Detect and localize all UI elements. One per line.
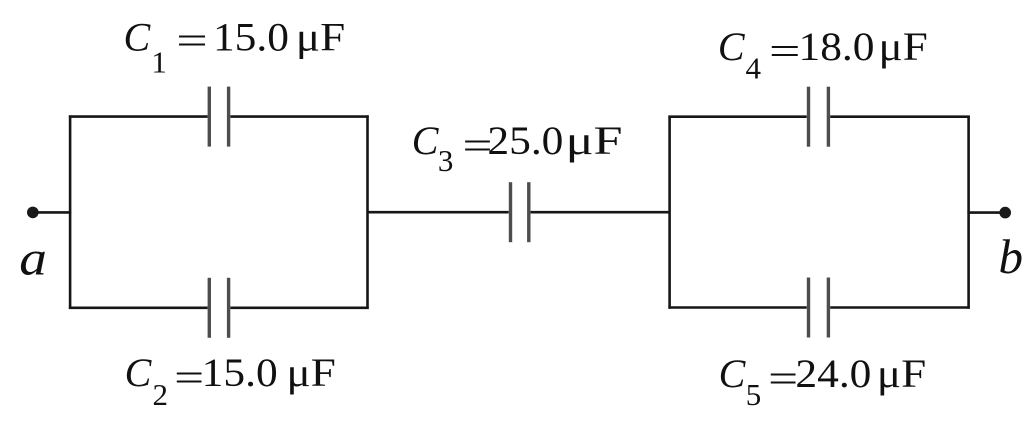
- capacitor C3 right plate: [527, 182, 530, 242]
- capacitor C1 right plate: [227, 87, 230, 147]
- wire: left loop bottom edge, right of C2: [230, 306, 368, 309]
- wire: left loop top edge, left of C1: [69, 115, 208, 118]
- wire: right loop bottom edge, right of C5: [830, 306, 970, 309]
- wire: right loop bottom edge, left of C5: [668, 306, 806, 309]
- capacitor C5 left plate: [807, 278, 810, 338]
- wire: right loop left vertical side: [668, 116, 671, 309]
- capacitor C2 right plate: [227, 278, 230, 338]
- capacitor C1 left plate: [208, 87, 211, 147]
- capacitor C5 right plate: [827, 278, 830, 338]
- wire: left loop bottom edge, left of C2: [69, 306, 208, 309]
- svg-text:C4=18.0μF: C4=18.0μF: [718, 24, 928, 86]
- capacitor C3 left plate: [509, 182, 512, 242]
- wire: right loop top edge, right of C4: [830, 115, 970, 118]
- svg-text:a: a: [19, 231, 47, 286]
- wire: middle link, right of C3: [531, 211, 670, 214]
- svg-text:C3=25.0μF: C3=25.0μF: [412, 118, 623, 178]
- wire: right loop to terminal b: [967, 211, 1005, 214]
- node a terminal dot: [27, 207, 39, 219]
- capacitor C4 right plate: [827, 87, 830, 147]
- svg-text:C2=15.0μF: C2=15.0μF: [125, 350, 336, 412]
- capacitor C4 left plate: [807, 87, 810, 147]
- wire: left loop top edge, right of C1: [230, 115, 368, 118]
- svg-text:b: b: [999, 229, 1024, 284]
- wire: right loop right vertical side: [967, 116, 970, 309]
- capacitor C2 left plate: [208, 278, 211, 338]
- wire: terminal a to left loop: [33, 211, 72, 214]
- svg-text:C5=24.0μF: C5=24.0μF: [719, 351, 927, 412]
- wire: middle link, left of C3: [368, 211, 509, 214]
- wire: left loop right vertical side: [366, 115, 369, 309]
- node b terminal dot: [999, 207, 1011, 219]
- wire: left loop left vertical side: [69, 115, 72, 309]
- wire: right loop top edge, left of C4: [668, 115, 806, 118]
- svg-text:C1=15.0μF: C1=15.0μF: [124, 14, 346, 79]
